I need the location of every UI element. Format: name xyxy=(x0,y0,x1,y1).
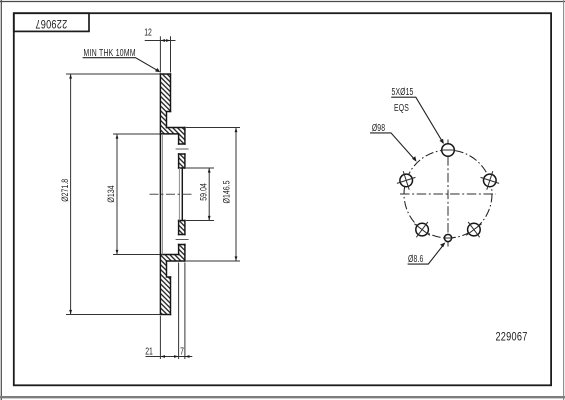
svg-text:229067: 229067 xyxy=(495,332,527,344)
svg-text:59.04: 59.04 xyxy=(199,183,209,201)
notch top xyxy=(167,112,171,128)
label Ø98 xyxy=(372,122,385,134)
section centerline xyxy=(150,193,193,195)
svg-text:21: 21 xyxy=(145,345,153,357)
flange top edge xyxy=(167,127,185,129)
bolt hole lower-left xyxy=(416,223,429,236)
horizontal centerline xyxy=(400,193,496,195)
flange bottom edge xyxy=(167,260,185,262)
page edge right xyxy=(563,0,565,400)
svg-text:Ø8.6: Ø8.6 xyxy=(408,253,424,265)
label MIN THK 10MM xyxy=(84,47,136,59)
title box xyxy=(14,13,89,31)
svg-text:5XØ15: 5XØ15 xyxy=(391,86,413,98)
page edge bottom xyxy=(0,396,565,398)
ring outer edge top xyxy=(160,73,170,75)
band bottom edge top xyxy=(160,133,178,135)
dim 59.04 xyxy=(186,168,214,221)
svg-text:EQS: EQS xyxy=(394,102,409,114)
plate inner face segments xyxy=(178,134,180,255)
leader arrow Ø98 xyxy=(412,156,417,161)
svg-text:229067: 229067 xyxy=(35,17,67,29)
plate outer face segments xyxy=(184,128,186,262)
small hole Ø8.6 xyxy=(444,234,451,241)
svg-text:Ø134: Ø134 xyxy=(106,185,116,203)
ring outer edge bottom xyxy=(160,314,170,316)
dim Ø271.8 xyxy=(66,74,160,315)
label 5XØ15 / EQS xyxy=(391,86,413,98)
svg-text:7: 7 xyxy=(180,345,184,357)
bolt hole tick lower xyxy=(176,239,189,241)
vertical centerline xyxy=(447,140,449,247)
ring inboard face bottom xyxy=(170,277,172,315)
svg-text:12: 12 xyxy=(144,26,152,38)
dim Ø146.5 xyxy=(186,128,240,262)
ring inboard face top xyxy=(170,74,172,112)
bolt hole bottom edges xyxy=(179,235,185,245)
notch bottom xyxy=(167,261,171,277)
leader arrow MIN THK xyxy=(155,68,160,72)
page edge left xyxy=(0,0,2,400)
leader arrow Ø8.6 xyxy=(440,242,445,247)
svg-text:MIN THK 10MM: MIN THK 10MM xyxy=(84,47,136,59)
bolt hole tick upper xyxy=(176,148,189,150)
dim 12 xyxy=(145,36,176,72)
bolt hole lower-right xyxy=(468,223,481,236)
bore upper edge xyxy=(179,167,185,169)
ring outboard face (full height) xyxy=(159,74,161,315)
band top edge bottom xyxy=(160,254,178,256)
bolt hole upper-left xyxy=(400,174,413,187)
section outlines xyxy=(160,74,185,315)
hatched plate segment upper (between bolt hole and bore) xyxy=(179,154,185,168)
bolt hole top xyxy=(442,144,455,157)
label Ø8.6 xyxy=(408,253,424,265)
bore silhouette gray line xyxy=(178,168,180,221)
bolt hole upper-right xyxy=(484,174,497,187)
bolt circle Ø98 xyxy=(404,150,492,238)
hatched ring bottom section xyxy=(160,245,185,315)
part number bottom right xyxy=(495,332,527,344)
dim 21 / 7 xyxy=(146,263,193,360)
bore dark line xyxy=(181,168,183,221)
hat silhouette gray line xyxy=(161,134,163,255)
bolt hole top edges xyxy=(179,144,185,154)
title part number 229067 (rotated 180) xyxy=(35,17,67,29)
leader arrow 5XØ15 xyxy=(440,139,444,144)
hatched plate segment lower (between bore and bolt hole) xyxy=(179,221,185,235)
svg-text:Ø98: Ø98 xyxy=(372,122,385,134)
hatched ring top section xyxy=(160,74,185,144)
svg-text:Ø146.5: Ø146.5 xyxy=(222,180,232,203)
dim Ø134 xyxy=(113,134,160,255)
bore lower edge xyxy=(179,220,185,222)
page edge top xyxy=(0,1,565,3)
svg-text:Ø271.8: Ø271.8 xyxy=(60,178,70,201)
